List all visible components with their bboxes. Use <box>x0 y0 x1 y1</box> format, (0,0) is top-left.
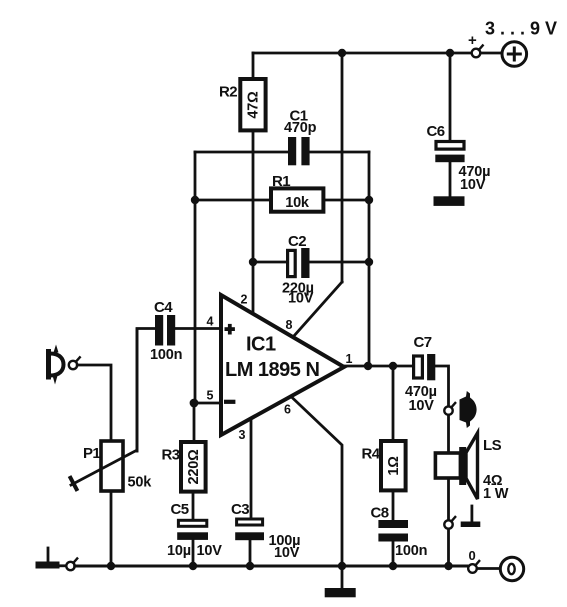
svg-text:P1: P1 <box>83 445 100 462</box>
capacitor C6 branch wire from top rail <box>449 53 452 140</box>
capacitor C5 negative plate (solid) <box>177 532 208 540</box>
svg-text:4: 4 <box>207 315 214 329</box>
wire R2 top lead <box>252 53 255 79</box>
wire C6 bottom lead <box>449 162 452 196</box>
ground terminal bottom left (open circle with slash) <box>66 562 74 570</box>
supply terminal top (open circle with slash) <box>472 49 481 58</box>
svg-text:3: 3 <box>239 428 246 442</box>
svg-text:1Ω: 1Ω <box>386 456 402 476</box>
wire left feedback vertical x=195 <box>194 152 197 403</box>
capacitor C8 plate bottom (solid) <box>378 534 408 542</box>
wire pin4 row: C4 to op-amp <box>175 327 221 330</box>
wire pin8 diagonal into op-amp <box>293 282 342 337</box>
wire rail to 0V circle <box>477 567 500 570</box>
node junction P1 / bottom rail <box>107 562 115 570</box>
svg-text:100n: 100n <box>395 543 427 559</box>
node junction C2 left / pin2 line <box>249 258 257 266</box>
svg-text:R2: R2 <box>219 84 237 101</box>
capacitor C6 negative plate (solid) <box>435 155 464 163</box>
capacitor C7 negative plate (solid) <box>427 354 435 380</box>
svg-text:C7: C7 <box>414 334 432 351</box>
svg-text:LS: LS <box>483 437 502 454</box>
node junction top rail / pin8 branch <box>338 49 346 57</box>
capacitor C3 negative plate (solid) <box>235 532 264 540</box>
resistor R1 body <box>271 188 323 211</box>
svg-text:+: + <box>468 32 477 49</box>
wire top supply rail <box>253 52 471 55</box>
svg-text:0: 0 <box>469 548 476 563</box>
0V terminal bottom (open circle with slash) <box>468 564 477 573</box>
svg-text:C6: C6 <box>427 123 445 140</box>
node junction R1 right <box>365 196 373 204</box>
wire right feedback vertical x=369 <box>368 152 371 366</box>
svg-text:47Ω: 47Ω <box>246 91 262 119</box>
svg-text:50k: 50k <box>128 475 153 491</box>
svg-text:1: 1 <box>346 352 353 366</box>
svg-text:C2: C2 <box>288 233 306 250</box>
svg-text:C3: C3 <box>231 501 249 518</box>
resistor R3 body <box>181 442 206 492</box>
wire R3 top lead from pin5 node <box>193 403 196 442</box>
output arrow symbol (solid) <box>460 391 477 428</box>
node junction output / feedback <box>364 362 372 370</box>
wire R4 to C8 <box>392 490 395 520</box>
svg-text:8: 8 <box>286 318 293 332</box>
node junction pin6 ground / bottom rail <box>338 562 346 570</box>
svg-text:100n: 100n <box>150 347 182 363</box>
svg-text:2: 2 <box>241 293 248 307</box>
wire P1 wiper vertical to C4 <box>136 329 139 451</box>
wire C8 bottom to rail <box>392 542 395 567</box>
svg-text:10V: 10V <box>197 543 223 559</box>
wire bottom ground rail <box>75 565 468 568</box>
speaker lower terminal (open circle with slash) <box>444 520 452 528</box>
input plug symbol <box>46 352 51 378</box>
wire speaker to lower terminal <box>447 478 450 520</box>
wire stub ground bar to terminal <box>61 564 65 567</box>
loudspeaker LS <box>435 453 460 478</box>
node junction pin5 / R3 / feedback <box>190 399 199 408</box>
wire P1 bottom to rail <box>110 491 113 566</box>
node junction C5 / bottom rail <box>189 562 197 570</box>
svg-text:1 W: 1 W <box>483 486 509 502</box>
svg-text:LM 1895 N: LM 1895 N <box>225 359 319 381</box>
capacitor C5 positive plate (hollow) <box>178 520 206 526</box>
ground symbol below rail (pin6) <box>341 566 344 588</box>
capacitor C4 plates <box>155 315 163 346</box>
svg-text:C4: C4 <box>154 299 173 316</box>
wire pin5 row <box>194 402 221 405</box>
svg-text:6: 6 <box>284 403 291 417</box>
wire C5 bottom to rail <box>192 540 195 566</box>
wire R1 row horizontal <box>195 199 271 202</box>
node junction C3 / bottom rail <box>246 562 254 570</box>
resistor R4 body <box>381 441 406 490</box>
capacitor C7 positive plate (hollow) <box>414 356 423 378</box>
svg-text:5: 5 <box>207 389 214 403</box>
capacitor C3 positive plate (hollow) <box>237 519 263 525</box>
wire C3 bottom to rail <box>249 540 252 566</box>
svg-text:10k: 10k <box>285 195 310 211</box>
wire top rail to supply circle <box>481 52 503 55</box>
capacitor C6 positive plate (hollow) <box>436 142 464 150</box>
op-amp plus input mark <box>225 327 235 331</box>
wire R2 bottom lead down to pin 2 <box>252 130 255 312</box>
supply circle with plus <box>502 42 527 67</box>
wire pin8 branch vertical from top rail <box>341 53 344 282</box>
wire R3 to C5 <box>192 492 195 519</box>
svg-text:R1: R1 <box>272 173 290 190</box>
wire terminal to speaker <box>447 415 450 453</box>
wire input terminal to P1 top <box>77 365 111 441</box>
node junction output / R4 <box>389 362 397 370</box>
node junction speaker branch / bottom rail <box>444 562 452 570</box>
capacitor C8 plate top (solid) <box>378 520 408 528</box>
svg-text:3 . . . 9 V: 3 . . . 9 V <box>485 19 557 39</box>
wire C1 row horizontal <box>195 151 288 154</box>
op-amp IC1 triangle <box>221 295 344 435</box>
svg-text:220Ω: 220Ω <box>186 449 202 485</box>
node junction C8 / bottom rail <box>389 562 397 570</box>
svg-text:C5: C5 <box>171 501 189 518</box>
wire C4 left lead and down to wiper <box>137 329 155 452</box>
input terminal (open circle with slash) <box>69 361 77 369</box>
0V circle with 0 <box>500 557 523 580</box>
svg-text:10V: 10V <box>409 398 435 414</box>
svg-text:R4: R4 <box>362 446 381 463</box>
svg-text:R3: R3 <box>162 447 180 464</box>
capacitor C1 plates <box>288 137 296 165</box>
capacitor C2 negative plate (solid) <box>301 248 309 278</box>
ground symbol beside speaker terminal <box>470 506 473 521</box>
potentiometer P1 wiper <box>71 451 136 485</box>
ground bar C6 <box>434 196 465 206</box>
wire R4 top lead from output node <box>392 366 395 441</box>
ground symbol bottom left <box>47 548 50 562</box>
capacitor C2 positive plate (hollow) <box>288 250 296 276</box>
wire pin1 output row <box>344 365 412 368</box>
svg-text:470p: 470p <box>284 120 317 136</box>
svg-text:10V: 10V <box>288 291 314 307</box>
svg-text:10V: 10V <box>274 545 300 561</box>
resistor R2 body <box>240 79 265 130</box>
wire C2 row horizontal <box>253 261 286 264</box>
wire lower terminal to bottom rail <box>447 529 450 566</box>
output terminal upper (open circle with slash) <box>444 406 452 414</box>
wire pin3 down to C3 <box>250 421 253 518</box>
node junction top rail / C6 branch <box>446 49 454 57</box>
svg-text:10V: 10V <box>460 177 486 193</box>
svg-text:C8: C8 <box>371 505 389 522</box>
node junction C2 right <box>365 258 373 266</box>
potentiometer P1 body <box>101 441 123 491</box>
svg-text:10µ: 10µ <box>167 543 191 559</box>
node junction R1 left <box>191 196 199 204</box>
svg-text:IC1: IC1 <box>246 334 276 356</box>
op-amp minus input mark <box>224 400 235 404</box>
wire pin6 diagonal from op-amp <box>291 397 342 563</box>
